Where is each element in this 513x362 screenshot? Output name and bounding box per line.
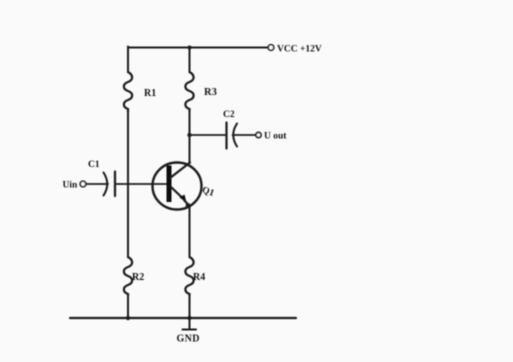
transistor Q1 circle <box>153 163 202 210</box>
transistor Q1 emitter diagonal <box>171 187 183 199</box>
wire left vertical middle (R1 to R2) <box>127 112 129 257</box>
svg-text:C1: C1 <box>88 160 100 170</box>
wire C2 to Uout <box>233 134 256 136</box>
svg-text:VCC +12V: VCC +12V <box>277 45 322 55</box>
wire left vertical bottom (R2 to ground rail) <box>127 296 129 318</box>
capacitor C1 curved plate <box>104 173 108 196</box>
svg-text:R1: R1 <box>144 88 156 99</box>
wire emitter vertical (circle to R4) <box>189 206 191 257</box>
capacitor C1 straight plate <box>114 172 116 197</box>
svg-text:R2: R2 <box>132 272 144 283</box>
node emitter circle blob <box>186 203 191 208</box>
terminal Uout open circle <box>256 132 261 137</box>
node R2 rail junction dot <box>126 316 130 320</box>
node VCC rail junction dot <box>188 46 192 50</box>
transistor Q1 emitter arrowhead <box>180 195 187 203</box>
resistor R3 <box>185 72 193 111</box>
wire left vertical top (VCC to R1) <box>127 47 129 73</box>
svg-text:C2: C2 <box>223 110 235 120</box>
terminal VCC open circle <box>268 45 274 51</box>
ground tick bar <box>183 329 197 331</box>
transistor Q1 emitter to circle edge <box>184 200 189 206</box>
capacitor C2 straight plate <box>225 123 227 149</box>
wire right vertical (R3 to collector) <box>189 111 191 163</box>
ground stub wire <box>189 318 191 330</box>
svg-text:GND: GND <box>177 334 200 345</box>
svg-text:R3: R3 <box>204 87 217 98</box>
resistor R4 <box>185 257 193 296</box>
svg-text:Uin: Uin <box>63 181 79 191</box>
wire right vertical top (VCC to R3) <box>189 48 191 73</box>
transistor Q1 collector diagonal <box>170 163 190 179</box>
ground rail <box>70 317 296 319</box>
resistor R1 <box>124 72 132 112</box>
wire C1 to base <box>115 183 167 185</box>
wire R4 to ground rail <box>189 296 191 318</box>
svg-text:R4: R4 <box>193 272 205 283</box>
wire C2 branch (collector to C2) <box>190 134 227 136</box>
svg-text:U out: U out <box>264 132 287 142</box>
resistor R2 <box>124 257 132 296</box>
transistor Q1 base bar <box>167 166 172 203</box>
capacitor C2 curved plate <box>233 124 237 147</box>
terminal Uin open circle <box>80 181 86 187</box>
wire Uin to C1 <box>86 183 108 185</box>
wire top rail VCC <box>128 47 268 49</box>
node R4 rail junction dot <box>187 316 191 320</box>
node collector junction dot <box>187 133 191 137</box>
